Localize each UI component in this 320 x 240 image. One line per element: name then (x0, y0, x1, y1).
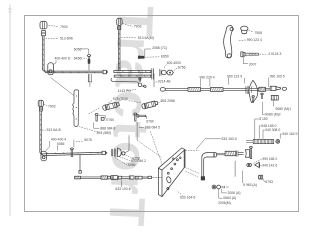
svg-text:9080 (M)1: 9080 (M)1 (276, 107, 292, 111)
bottom linkage shaft (75, 176, 162, 180)
lever 1 rod end fitting (103, 70, 108, 73)
svg-text:E760: E760 (106, 118, 114, 122)
leader 7903 lever3 (44, 104, 47, 106)
leader 940 162 0 (280, 134, 282, 139)
lever 3 bend and horizontal rod (40, 152, 102, 156)
clevis pin (139, 79, 140, 82)
leader 2058 7C (145, 49, 151, 56)
leader 400-400 D (53, 60, 56, 64)
leader 7903 top (49, 25, 59, 26)
leader 2006 A (222, 189, 227, 193)
svg-text:6456: 6456 (74, 56, 82, 60)
shaft through disc (250, 88, 259, 90)
lever 2 vertical rod (119, 30, 121, 70)
leader 6760 (145, 116, 147, 119)
main shaft knurled section 2 (210, 88, 223, 92)
leader 2007 (243, 57, 248, 64)
connecting rod elbow to right (217, 153, 226, 154)
rod-end assembly right (turnbuckle) (141, 100, 158, 109)
svg-text:400-4000: 400-4000 (167, 61, 181, 65)
svg-text:513 6A(M): 513 6A(M) (138, 36, 154, 40)
svg-text:2007: 2007 (249, 62, 257, 66)
svg-text:5456: 5456 (57, 142, 65, 146)
lever 1 clamp trunnion (48, 63, 54, 75)
leader E650 (145, 56, 160, 58)
anchor bracket (245, 150, 249, 158)
small dark cylinder 5753 (258, 175, 262, 179)
leader 948 158 0 (259, 126, 261, 139)
dark pin E650 (138, 56, 144, 59)
svg-text:633 100-6: 633 100-6 (115, 187, 130, 191)
leader 633 164-5 (177, 191, 183, 197)
washer and fittings (237, 151, 244, 157)
clip part (101, 117, 104, 120)
wavy bracket (73, 90, 79, 127)
bolt with washer (241, 52, 259, 57)
svg-text:0214 4B: 0214 4B (158, 79, 171, 83)
svg-text:7908: 7908 (255, 31, 263, 35)
leader E760 (99, 116, 106, 119)
small ring (122, 152, 125, 155)
svg-text:993 2086: 993 2086 (161, 99, 175, 103)
leader 633 100-6 (121, 181, 123, 187)
leader 6056 (81, 49, 89, 54)
leader 940 142 6 (260, 165, 261, 167)
leader 0684 A (219, 189, 223, 198)
washer pair before disc (246, 86, 249, 93)
svg-text:6076: 6076 (84, 138, 92, 142)
flanged ring part under 400-4000 (160, 69, 166, 76)
leader 990 229 4 (201, 79, 210, 87)
leader 4 0124 3 (259, 53, 267, 55)
leader 990 168 2 (252, 159, 262, 164)
svg-text:940 142 6: 940 142 6 (262, 164, 277, 168)
svg-text:2006 (A): 2006 (A) (228, 191, 241, 195)
leader 400-4000 (164, 65, 167, 69)
plate dashes right (185, 149, 199, 151)
leader 9080 1 (273, 100, 275, 106)
pin 6456 lower (88, 74, 92, 86)
svg-text:S756: S756 (178, 66, 186, 70)
leader line down to ring (125, 136, 129, 153)
lever 1 vertical rod (43, 36, 45, 69)
small banded cylinder part (271, 95, 278, 100)
leader 990 123 9 (228, 78, 244, 85)
svg-text:TractorTr: TractorTr (97, 5, 164, 226)
svg-text:1143 PO: 1143 PO (118, 89, 131, 93)
border frame (25, 16, 299, 212)
washers pair small (247, 164, 252, 167)
leader 5963 (242, 171, 244, 183)
leader 7903 lever2 (122, 24, 133, 27)
svg-text:5 963 (A): 5 963 (A) (243, 183, 257, 187)
svg-text:633 164-5: 633 164-5 (180, 195, 195, 199)
bent link rod to clevis (111, 78, 139, 84)
cone horn part (255, 162, 260, 168)
lever 3 vertical rod (40, 111, 42, 152)
svg-text:7903: 7903 (48, 105, 56, 109)
leader 7908 (249, 30, 254, 32)
leader 993 2086 (158, 101, 162, 103)
watermark (97, 5, 164, 240)
svg-text:4 0124 3: 4 0124 3 (268, 52, 281, 56)
main shaft right of section 2 (223, 88, 247, 90)
mounting plate (158, 148, 185, 197)
svg-text:593 (580): 593 (580) (97, 131, 112, 135)
svg-text:513 6R6: 513 6R6 (60, 37, 73, 41)
svg-text:990 229 4: 990 229 4 (200, 75, 215, 79)
leader 870 046 2 (119, 156, 131, 161)
pin right of disc below shaft (261, 93, 264, 98)
svg-text:040 308 0: 040 308 0 (265, 128, 280, 132)
svg-text:5456: 5456 (128, 163, 136, 167)
svg-text:990 123 9: 990 123 9 (227, 74, 242, 78)
hex nut part (167, 70, 174, 75)
lever 2 lower horizontal rod (114, 75, 151, 78)
leader 888 084 5 (139, 127, 144, 129)
leader 8 150 (255, 119, 259, 139)
leader 6076 (75, 140, 83, 142)
disc plate (249, 80, 258, 102)
main shaft knurled section 1 (188, 88, 201, 92)
leader 6456 (81, 57, 87, 59)
flanged bushing (118, 148, 122, 157)
leader 990 100 5 (268, 78, 270, 87)
lever 2 upper horizontal rod (114, 70, 151, 73)
svg-text:5753: 5753 (265, 180, 273, 184)
leader 5753 (263, 179, 265, 182)
spring assembly (246, 139, 279, 143)
svg-text:400-400 D: 400-400 D (55, 56, 71, 60)
lever 3 collar (39, 107, 42, 111)
svg-text:9080 (M)2: 9080 (M)2 (265, 113, 281, 117)
leader 5456 lever3 (56, 145, 58, 150)
svg-text:513 6A-B: 513 6A-B (47, 128, 62, 132)
svg-text:888 084 5: 888 084 5 (145, 126, 160, 130)
rubber boot part (241, 26, 248, 34)
svg-text:7903: 7903 (134, 25, 142, 29)
svg-text:990 123 4: 990 123 4 (247, 38, 262, 42)
pin P1 below left rod-end (95, 113, 98, 121)
page tick marks (8, 9, 12, 12)
leader 400-400 4 (46, 141, 50, 151)
leader 633 163-0 (196, 139, 221, 149)
svg-text:990 168 2: 990 168 2 (262, 157, 277, 161)
washer pair near lever3 rod tip (111, 149, 115, 157)
lever 2 collar (118, 26, 121, 29)
svg-text:6056: 6056 (74, 47, 82, 51)
pin P2 below right rod-end (134, 113, 137, 121)
leader 040 308 0 (263, 130, 265, 139)
lever 1 knob (40, 21, 47, 29)
leader 990 123 4 (238, 39, 246, 42)
lever 1 bend and horizontal rod (43, 69, 104, 74)
main shaft middle (201, 88, 211, 90)
leader 1143 PO (127, 90, 136, 91)
svg-text:400-400 4: 400-400 4 (51, 138, 66, 142)
leader bracket to labels (79, 127, 99, 133)
plate dashes from left (136, 122, 138, 141)
svg-text:940 162 0: 940 162 0 (282, 132, 297, 136)
pin 6056 (87, 55, 90, 71)
main shaft left ball end (160, 88, 188, 92)
svg-text:633 163-0: 633 163-0 (222, 137, 237, 141)
curved lever arm top right (224, 25, 234, 58)
leader 0214 4B (154, 82, 157, 83)
leader S756 (173, 68, 178, 71)
svg-text:2058 (7C): 2058 (7C) (152, 46, 167, 50)
svg-text:6760: 6760 (146, 119, 154, 123)
washer plate right of rods (152, 69, 154, 80)
svg-text:2006(M): 2006(M) (218, 201, 231, 205)
knurled sleeve bottom right (225, 151, 236, 155)
svg-text:7903: 7903 (60, 25, 68, 29)
shaft stub and end fitting (265, 86, 286, 90)
svg-text:990 100 5: 990 100 5 (270, 74, 285, 78)
line rod A end down (153, 74, 155, 87)
lever 2 knob (117, 18, 122, 25)
leader clamp to bracket (51, 78, 75, 96)
leader 513 6R6 (46, 37, 59, 39)
leader 9080 2 (262, 102, 265, 115)
svg-text:888 084 8: 888 084 8 (100, 126, 115, 130)
svg-text:8 150: 8 150 (259, 117, 268, 121)
leader 978 (108, 100, 140, 103)
horizontal pin at P2 (137, 115, 146, 118)
lever 3 clamp trunnion (41, 151, 46, 161)
clevis small below rods (138, 83, 146, 88)
thin vertical line mid (234, 161, 236, 177)
leader 513 6A-B (42, 129, 46, 131)
leader A758 (125, 155, 132, 159)
svg-text:0684 (A): 0684 (A) (223, 196, 236, 200)
pin on lever 3 rod (70, 148, 73, 157)
elbow link (201, 153, 216, 180)
page edge line (9, 5, 11, 216)
knurled collar right of disc (259, 87, 266, 91)
leader 888 084 8 (94, 123, 100, 129)
lever 3 rod end fitting (102, 151, 107, 154)
vertical pin through bracket (250, 146, 253, 158)
lever 3 knob (38, 100, 43, 106)
washer pair left bottom (212, 185, 228, 189)
leader 5456 circle (115, 157, 128, 165)
pin below disc (252, 96, 255, 103)
svg-text:978 (7D)0: 978 (7D)0 (113, 97, 128, 101)
svg-text:E650: E650 (161, 55, 169, 59)
leader lines (42, 24, 282, 199)
leader 513 6AM (121, 36, 137, 39)
rod-end assembly left (turnbuckle) (102, 102, 119, 111)
lever 1 collar (42, 31, 46, 36)
drop link from lever 3 rod (79, 155, 81, 173)
